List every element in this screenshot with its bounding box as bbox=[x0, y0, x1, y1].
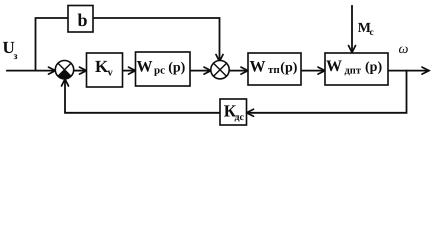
svg-text:ω: ω bbox=[399, 42, 409, 57]
svg-text:(р): (р) bbox=[365, 60, 382, 75]
svg-text:(р): (р) bbox=[168, 61, 185, 76]
svg-text:дпт: дпт bbox=[345, 66, 362, 77]
svg-text:дс: дс bbox=[235, 112, 245, 123]
svg-text:W: W bbox=[250, 59, 266, 76]
svg-text:с: с bbox=[370, 28, 374, 38]
svg-text:з: з bbox=[14, 51, 18, 62]
svg-text:W: W bbox=[137, 59, 153, 76]
svg-text:рс: рс bbox=[154, 65, 165, 77]
svg-text:W: W bbox=[326, 58, 342, 75]
svg-text:v: v bbox=[108, 68, 114, 79]
svg-text:b: b bbox=[78, 10, 88, 30]
svg-text:тп: тп bbox=[268, 64, 280, 76]
svg-text:(р): (р) bbox=[280, 61, 297, 76]
